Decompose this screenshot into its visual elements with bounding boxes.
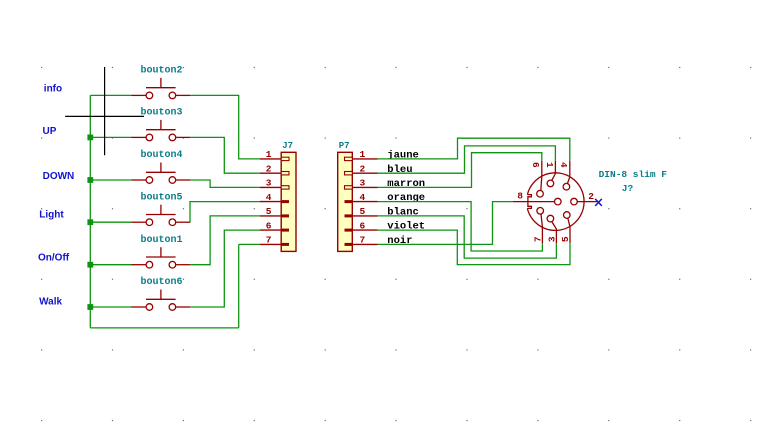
svg-text:orange: orange [387,192,425,204]
wire common bus into J7 pin 7 [239,243,260,245]
svg-text:bouton6: bouton6 [140,276,182,288]
svg-text:On/Off: On/Off [38,252,70,263]
connector J7 body [281,152,296,251]
J7 pin 5 [260,206,289,217]
wire bus to bouton3 left pin [90,136,132,138]
connector P7 body [338,152,353,251]
wire bus to bouton4 left pin [90,179,132,181]
push button bouton1 [132,247,191,268]
svg-text:5: 5 [360,206,366,217]
svg-text:violet: violet [387,221,425,233]
svg-text:info: info [44,83,62,94]
P7 pin 2 [345,163,378,175]
svg-text:2: 2 [266,163,272,174]
DIN pin 3 [547,215,556,243]
svg-text:bleu: bleu [387,164,412,176]
J7 pin 7 [260,235,289,246]
wire bus to bouton5 left pin [90,221,132,223]
DIN pin 6 [537,161,544,197]
wire bouton1 right pin to J7 pin 5 [190,216,259,265]
svg-text:DIN-8 slim F: DIN-8 slim F [599,169,668,180]
junction bus / UP row [87,135,93,141]
svg-text:6: 6 [266,220,272,231]
svg-text:7: 7 [266,235,272,246]
DIN pin 1 [547,161,555,187]
wire bus to bouton1 left pin [90,264,132,266]
svg-text:6: 6 [360,220,366,231]
J7 pin 3 [260,178,289,189]
J7 pin 4 [260,192,289,203]
svg-text:DOWN: DOWN [43,171,75,182]
wire common bus vertical [89,95,91,328]
wire bouton3 right pin to J7 pin 2 [190,137,259,173]
DIN pin 7 [537,208,544,244]
junction bus / Walk row [87,304,93,310]
push button bouton6 [132,290,191,311]
junction bus / Light row [87,219,93,225]
wire bouton5 right pin to J7 pin 4 [190,202,260,223]
svg-text:2: 2 [360,163,366,174]
P7 pin 4 [345,192,378,203]
P7 pin 7 [345,235,378,246]
J7 pin 1 [260,149,289,160]
DIN pin 2 [571,198,597,205]
J7 pin 6 [260,220,289,231]
wire common bus bottom horizontal [90,327,238,329]
svg-text:3: 3 [546,236,557,242]
wire violet to DIN pin 5 [378,230,571,265]
junction bus / DOWN row [87,177,93,183]
svg-text:bouton5: bouton5 [140,191,182,203]
svg-text:bouton4: bouton4 [140,149,182,161]
svg-text:Light: Light [39,210,64,221]
svg-text:4: 4 [360,192,366,203]
wire orange to DIN pin 7 [378,202,543,251]
svg-text:jaune: jaune [387,150,419,162]
push button bouton3 [132,120,191,141]
push button bouton5 [132,205,191,226]
cursor crosshair [65,67,144,155]
push button bouton4 [132,163,191,184]
wire noir to DIN pin 8 [378,202,513,245]
wire bouton4 right pin to J7 pin 3 [190,180,259,187]
connector J? DIN-8 outline circle with keyway notch [527,173,584,231]
P7 pin 5 [345,206,378,217]
svg-text:J?: J? [622,183,634,194]
svg-text:blanc: blanc [387,207,419,219]
svg-text:4: 4 [266,192,272,203]
svg-text:6: 6 [530,162,541,168]
svg-text:noir: noir [387,235,412,247]
wire bouton2 right pin to J7 pin 1 [190,95,259,158]
wire blanc to DIN pin 3 [378,216,557,258]
push button bouton2 [132,78,191,99]
svg-text:bouton1: bouton1 [140,234,182,246]
wire marron to DIN pin 6 [378,153,542,188]
svg-text:bouton3: bouton3 [140,107,182,119]
wire jaune to DIN pin 4 [378,138,570,161]
no-connect X on DIN pin 2 [595,199,602,206]
svg-text:Walk: Walk [39,297,62,308]
wire bus to bouton2 left pin [90,94,132,96]
wire bleu to DIN pin 1 [378,146,556,173]
svg-text:1: 1 [360,149,366,160]
svg-text:5: 5 [560,236,571,242]
svg-text:bouton2: bouton2 [140,65,182,77]
DIN pin 4 [563,161,570,190]
svg-text:7: 7 [532,236,543,242]
svg-text:1: 1 [544,162,555,168]
P7 pin 6 [345,220,378,231]
wire bus to bouton6 left pin [90,306,132,308]
svg-text:8: 8 [517,191,523,202]
svg-text:1: 1 [266,149,272,160]
J7 pin 2 [260,163,289,175]
svg-text:marron: marron [387,178,425,190]
wire common bus up to J7 pin 7 [238,244,240,328]
svg-text:3: 3 [266,178,272,189]
svg-text:P7: P7 [339,141,350,151]
svg-text:4: 4 [558,162,569,168]
wire bouton6 right pin to J7 pin 6 [190,230,259,307]
svg-text:7: 7 [360,235,366,246]
DIN pin 8 (center) [513,198,561,205]
P7 pin 1 [345,149,378,160]
svg-text:3: 3 [360,178,366,189]
svg-text:UP: UP [43,126,57,137]
P7 pin 3 [345,178,378,189]
svg-text:5: 5 [266,206,272,217]
svg-text:2: 2 [588,191,594,202]
DIN pin 5 [564,212,571,244]
svg-text:J7: J7 [282,141,293,151]
junction bus / On/Off row [87,262,93,268]
